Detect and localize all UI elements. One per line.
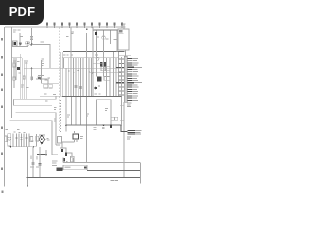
note text: [30, 161, 58, 168]
resistor on branch: [31, 68, 33, 80]
wire: [63, 57, 119, 59]
wire bus: [85, 67, 125, 69]
connector CN2 pins: [127, 131, 135, 134]
shield bar: [60, 52, 62, 96]
labels: [13, 132, 49, 142]
long vertical wires right: [121, 57, 123, 126]
wire: [19, 33, 21, 47]
component box: [5, 136, 7, 142]
feed bus: [93, 29, 118, 31]
ruler numerals: [46, 23, 123, 26]
transistor cluster center: [96, 57, 99, 60]
heavy trace: [37, 154, 47, 156]
capacitor symbols: [32, 163, 42, 165]
top ruler border: [5, 26, 126, 28]
IC box right-mid: [97, 100, 112, 125]
dashed boundary lower: [60, 100, 62, 132]
bottom wire long: [63, 162, 141, 164]
left border: [4, 27, 6, 187]
labels small boxes above: [111, 117, 114, 120]
diode D with wire: [31, 28, 33, 45]
transistor cluster: [17, 67, 20, 70]
wires row: [12, 134, 14, 147]
vertical wires ladder: [63, 58, 65, 69]
vertical feeders: [27, 147, 29, 186]
transistor Q: [95, 87, 98, 90]
IC block small: [97, 77, 102, 82]
net labels above bus: [44, 54, 101, 94]
dashed board boundary: [58, 28, 60, 133]
wire: [42, 82, 60, 84]
terminal box: [58, 137, 62, 144]
component boxes: [44, 84, 48, 88]
wire: [38, 75, 44, 77]
row letters left margin: [1, 38, 4, 193]
component box with part: [13, 41, 18, 46]
wire to box: [123, 25, 125, 30]
connector CN body: [124, 56, 127, 102]
nested block outlines left: [14, 96, 57, 99]
net labels mid: [53, 94, 89, 121]
resistor R: [13, 77, 16, 80]
value labels: [26, 31, 74, 101]
electrolytic capacitor: [26, 41, 30, 45]
wire: [36, 78, 47, 80]
relay component box: [36, 136, 39, 141]
resistor labels top-left: [13, 29, 23, 37]
wire: [11, 146, 38, 148]
capacitor symbols row: [16, 137, 28, 139]
motor M boxed: [8, 134, 11, 146]
ruler ticks: [47, 26, 122, 29]
ground bus dark: [40, 95, 62, 97]
capacitor C: [102, 36, 105, 39]
vertical net labels: [31, 156, 38, 160]
vertical wires center-right: [106, 58, 108, 96]
mid-left transistor cluster: [38, 76, 40, 78]
wire: [118, 54, 131, 56]
part number text: [111, 180, 119, 181]
component blobs: [61, 149, 63, 152]
polarized capacitor C: [95, 32, 97, 35]
transistor Q (dark dot): [19, 42, 22, 45]
board edge line 2: [27, 176, 141, 178]
wire bus: [24, 67, 90, 69]
inner vertical border: [11, 27, 13, 118]
staircase wire center bottom: [60, 142, 75, 148]
right border: [140, 163, 142, 184]
wire to connector CN2: [121, 125, 127, 131]
wire bus with junction: [90, 72, 122, 74]
bridge diode diamond: [39, 135, 44, 144]
wire: [27, 41, 29, 47]
value labels: [17, 61, 28, 88]
bus with junction dots: [66, 124, 121, 126]
board edge line 1: [87, 170, 141, 172]
top mid vertical wires: [92, 30, 94, 58]
title label box: [63, 165, 87, 169]
relay box dark: [73, 134, 78, 139]
value label: [114, 39, 117, 40]
value label: [41, 42, 44, 43]
wire: [12, 46, 28, 48]
wire: [32, 45, 51, 69]
wires into connector: [116, 59, 124, 95]
relay box top-right: [118, 29, 129, 50]
capacitor symbols mid: [75, 86, 83, 89]
wire stubs left of connector column: [120, 105, 124, 107]
main supply bus: [63, 51, 125, 53]
PDF badge: [0, 0, 44, 25]
connector pins: [127, 59, 134, 101]
left mid cluster wires: [12, 57, 23, 59]
heavy blob left of box: [56, 167, 62, 171]
below connector labels: [127, 103, 132, 107]
pin net labels: [133, 58, 142, 101]
resistor R: [13, 63, 16, 67]
capacitors under bus: [94, 127, 105, 129]
